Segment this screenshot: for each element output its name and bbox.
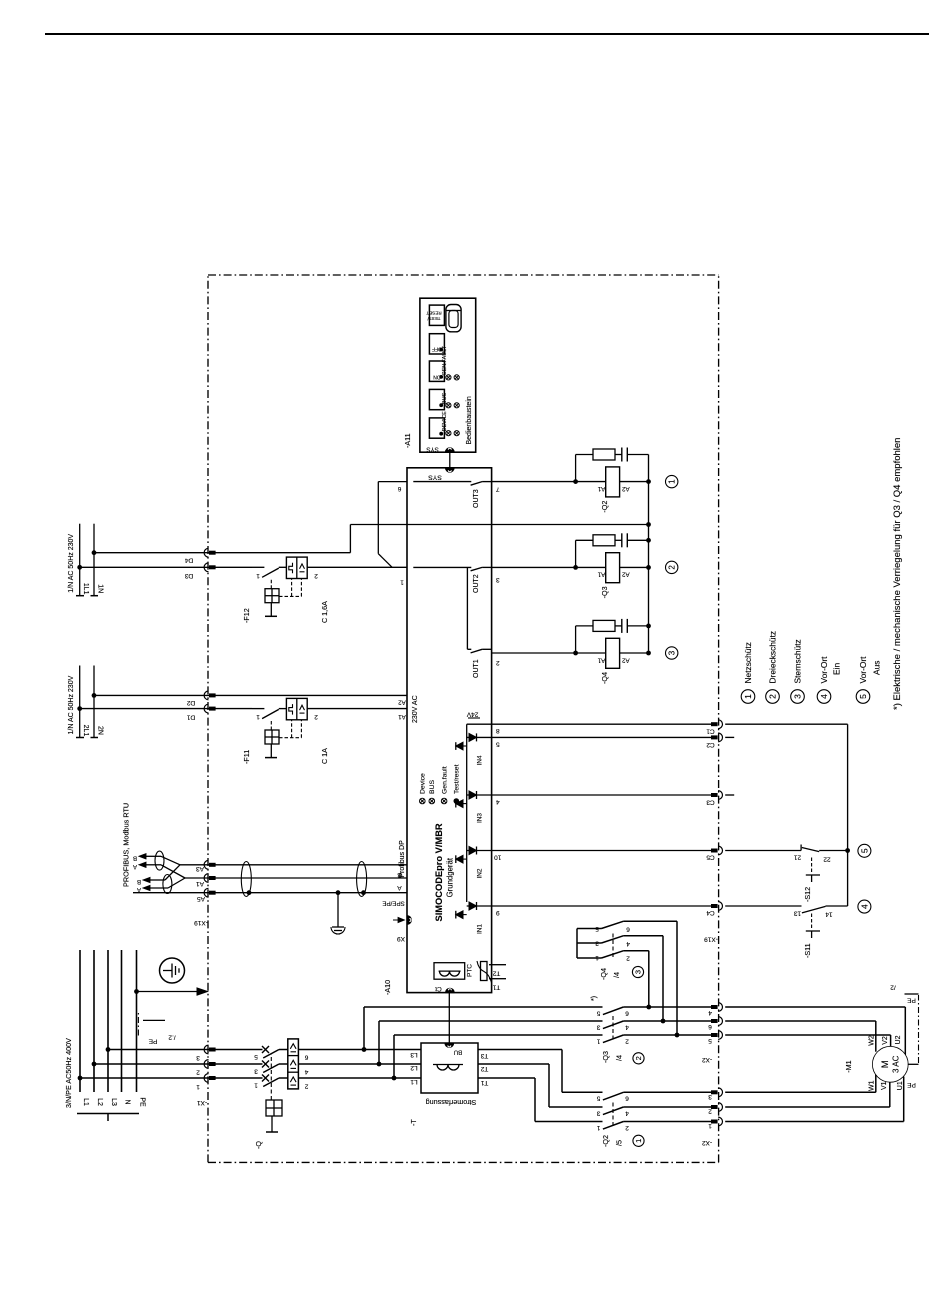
svg-text:1: 1 [254, 1082, 258, 1089]
svg-text:3: 3 [196, 1054, 200, 1061]
svg-text:T3: T3 [480, 1052, 488, 1059]
svg-text:C 1A: C 1A [320, 748, 329, 764]
svg-text:-S11: -S11 [803, 943, 812, 958]
svg-text:A1: A1 [398, 713, 406, 720]
svg-text:4: 4 [708, 1009, 712, 1016]
svg-text:T2: T2 [492, 970, 500, 977]
svg-text:21: 21 [794, 854, 802, 861]
svg-text:-T: -T [409, 1119, 418, 1126]
svg-text:W1: W1 [869, 1080, 876, 1091]
svg-text:1: 1 [708, 1122, 712, 1129]
svg-text:2: 2 [634, 1056, 643, 1060]
svg-text:-F11: -F11 [242, 750, 251, 764]
svg-text:D2: D2 [186, 699, 195, 706]
svg-text:X9: X9 [397, 935, 405, 942]
svg-text:L2: L2 [410, 1064, 418, 1071]
svg-text:OUT3: OUT3 [473, 489, 480, 508]
svg-text:Gen.fault: Gen.fault [441, 766, 448, 794]
svg-text:4: 4 [625, 1109, 629, 1116]
svg-text:Ct: Ct [435, 985, 442, 992]
svg-text:-A10: -A10 [383, 980, 392, 995]
svg-text:/4: /4 [615, 1055, 624, 1061]
svg-text:3: 3 [254, 1068, 258, 1075]
svg-text:1: 1 [668, 479, 677, 484]
svg-text:1: 1 [596, 1037, 600, 1044]
svg-text:A: A [137, 886, 141, 892]
svg-text:6: 6 [626, 926, 630, 933]
svg-text:1N: 1N [96, 584, 103, 593]
svg-text:A3: A3 [196, 865, 204, 872]
svg-text:D4: D4 [184, 557, 193, 564]
svg-text:C 1,6A: C 1,6A [320, 601, 329, 623]
svg-text:A1: A1 [597, 485, 605, 492]
svg-text:22: 22 [823, 856, 831, 863]
svg-text:BUS: BUS [442, 393, 448, 404]
svg-text:5: 5 [708, 1037, 712, 1044]
svg-text:4: 4 [496, 798, 500, 805]
svg-text:L1: L1 [82, 1098, 89, 1106]
svg-text:1: 1 [256, 572, 260, 579]
svg-text:2: 2 [668, 565, 677, 570]
svg-text:Test/reset: Test/reset [454, 764, 461, 794]
svg-text:A2: A2 [621, 485, 629, 492]
svg-text:Device: Device [420, 773, 427, 794]
svg-text:C1: C1 [706, 728, 715, 735]
svg-text:2: 2 [496, 659, 500, 666]
svg-text:-X2: -X2 [702, 1056, 713, 1063]
svg-text:A1: A1 [196, 880, 204, 887]
svg-text:1L1: 1L1 [82, 583, 89, 595]
svg-text:GEN.FAULT: GEN.FAULT [442, 345, 448, 375]
svg-text:4: 4 [819, 694, 829, 699]
svg-text:DEVICE: DEVICE [442, 411, 448, 431]
svg-text:Bedienbaustein: Bedienbaustein [466, 396, 473, 444]
svg-text:3: 3 [596, 1109, 600, 1116]
svg-text:L2: L2 [96, 1098, 103, 1106]
svg-text:U2: U2 [895, 1035, 902, 1044]
svg-text:V1: V1 [881, 1081, 888, 1090]
svg-text:A1: A1 [597, 656, 605, 663]
svg-text:M: M [880, 1060, 891, 1068]
svg-text:6: 6 [625, 1009, 629, 1016]
svg-text:1: 1 [196, 1083, 200, 1090]
svg-text:5: 5 [254, 1053, 258, 1060]
svg-text:6: 6 [397, 485, 401, 492]
svg-text:3: 3 [793, 694, 803, 699]
svg-text:PTC: PTC [467, 964, 474, 977]
svg-text:2L1: 2L1 [82, 725, 89, 737]
svg-text:C3: C3 [706, 799, 715, 806]
svg-text:-S12: -S12 [803, 887, 812, 902]
svg-text:1: 1 [595, 954, 599, 961]
svg-text:4: 4 [859, 904, 869, 909]
svg-text:W2: W2 [869, 1035, 876, 1046]
svg-text:A2: A2 [398, 698, 406, 705]
svg-text:RESET: RESET [426, 311, 442, 316]
svg-text:1/N AC 50Hz 230V: 1/N AC 50Hz 230V [68, 534, 75, 593]
svg-text:-X19: -X19 [194, 919, 208, 926]
svg-text:Vor-Ort: Vor-Ort [819, 656, 829, 684]
svg-text:A5: A5 [197, 895, 205, 902]
svg-text:BUS: BUS [429, 780, 436, 794]
svg-text:PROFIBUS, Modbus RTU: PROFIBUS, Modbus RTU [122, 803, 131, 887]
svg-text:U1: U1 [897, 1081, 904, 1090]
svg-text:*) Elektrische / mechanische V: *) Elektrische / mechanische Verriegelun… [892, 438, 903, 710]
svg-text:3: 3 [634, 970, 643, 974]
svg-text:4: 4 [626, 940, 630, 947]
svg-text:C2: C2 [706, 741, 715, 748]
svg-text:5: 5 [596, 1095, 600, 1102]
svg-text:*): *) [591, 996, 598, 1001]
svg-text:Aus: Aus [872, 661, 882, 675]
svg-text:-A11: -A11 [403, 433, 412, 448]
svg-text:6: 6 [625, 1095, 629, 1102]
svg-text:L3: L3 [110, 1098, 117, 1106]
svg-text:-Q2: -Q2 [600, 501, 609, 513]
svg-text:230V AC: 230V AC [412, 695, 419, 723]
svg-text:7: 7 [496, 486, 500, 493]
svg-text:C5: C5 [706, 854, 715, 861]
svg-text:-X2: -X2 [702, 1139, 713, 1146]
svg-text:A: A [133, 863, 137, 869]
svg-text:-Q4: -Q4 [599, 968, 608, 980]
svg-text:5: 5 [595, 925, 599, 932]
svg-text:2: 2 [196, 1069, 200, 1076]
svg-text:-Q2: -Q2 [601, 1135, 610, 1147]
svg-text:5: 5 [858, 694, 868, 699]
svg-text:D3: D3 [184, 572, 193, 579]
svg-text:1: 1 [743, 694, 753, 699]
svg-text:-Q3: -Q3 [600, 586, 609, 598]
svg-text:5: 5 [596, 1009, 600, 1016]
svg-text:2: 2 [625, 1037, 629, 1044]
svg-text:1/N AC 50Hz 230V: 1/N AC 50Hz 230V [68, 675, 75, 734]
svg-text:Ein: Ein [832, 663, 842, 675]
svg-text:3: 3 [595, 940, 599, 947]
svg-text:2: 2 [314, 713, 318, 720]
svg-text:-Q3: -Q3 [601, 1051, 610, 1063]
svg-text:3: 3 [708, 1093, 712, 1100]
svg-text:2: 2 [304, 1082, 308, 1089]
svg-text:B: B [397, 871, 401, 878]
svg-text:2: 2 [708, 1108, 712, 1115]
svg-text:14: 14 [825, 910, 833, 917]
svg-text:9: 9 [496, 909, 500, 916]
svg-text:Sternschütz: Sternschütz [793, 639, 803, 683]
svg-text:T1: T1 [480, 1079, 488, 1086]
svg-text:SYS: SYS [426, 446, 438, 453]
svg-text:24V: 24V [466, 711, 478, 718]
svg-text:/4: /4 [612, 972, 621, 978]
svg-text:Vor-Ort: Vor-Ort [858, 656, 868, 684]
svg-text:1: 1 [400, 578, 404, 585]
svg-text:IN2: IN2 [477, 868, 484, 878]
svg-text:A: A [397, 884, 402, 891]
svg-text:T1: T1 [492, 984, 500, 991]
svg-text:ON: ON [433, 374, 441, 380]
svg-text:A2: A2 [621, 656, 629, 663]
svg-text:8: 8 [496, 727, 500, 734]
svg-text:OFF: OFF [432, 346, 442, 352]
svg-text:SYS: SYS [428, 474, 442, 481]
svg-text:/2: /2 [890, 984, 896, 991]
svg-text:N: N [124, 1099, 131, 1104]
svg-text:/.2: /.2 [168, 1034, 176, 1041]
svg-text:PE: PE [148, 1038, 157, 1045]
svg-text:2: 2 [625, 1124, 629, 1131]
svg-text:3: 3 [496, 576, 500, 583]
svg-text:A2: A2 [621, 571, 629, 578]
svg-text:BU: BU [454, 1049, 462, 1055]
svg-text:Grundgerät: Grundgerät [446, 857, 455, 897]
svg-text:SPE/PE: SPE/PE [382, 900, 404, 907]
svg-text:IN4: IN4 [477, 755, 484, 765]
svg-text:IN3: IN3 [477, 813, 484, 823]
svg-text:3: 3 [596, 1023, 600, 1030]
svg-text:-Q: -Q [254, 1141, 263, 1149]
svg-text:IN1: IN1 [477, 924, 484, 934]
svg-text:1: 1 [256, 713, 260, 720]
svg-text:1: 1 [596, 1124, 600, 1131]
svg-text:4: 4 [304, 1068, 308, 1075]
svg-text:TEST/: TEST/ [427, 316, 441, 321]
svg-text:D1: D1 [186, 713, 195, 720]
svg-text:L1: L1 [410, 1078, 418, 1085]
svg-text:T2: T2 [480, 1065, 488, 1072]
svg-text:PE: PE [139, 1097, 146, 1107]
svg-text:10: 10 [494, 854, 502, 861]
svg-text:OUT1: OUT1 [473, 659, 480, 678]
svg-text:2N: 2N [96, 726, 103, 735]
svg-text:Netzschütz: Netzschütz [743, 642, 753, 683]
svg-text:L3: L3 [410, 1051, 418, 1058]
svg-text:V2: V2 [882, 1036, 889, 1045]
svg-text:5: 5 [496, 740, 500, 747]
svg-text:PE: PE [907, 997, 916, 1004]
svg-text:5: 5 [859, 848, 869, 853]
svg-text:Stromerfassung: Stromerfassung [426, 1098, 477, 1107]
svg-text:B: B [137, 878, 141, 884]
svg-text:/5: /5 [615, 1140, 624, 1146]
svg-text:3: 3 [668, 650, 677, 655]
svg-text:-X1: -X1 [197, 1099, 208, 1106]
svg-text:1: 1 [634, 1139, 643, 1143]
svg-text:SIMOCODEpro V/MBR: SIMOCODEpro V/MBR [434, 823, 444, 921]
svg-text:3/N/PE AC50Hz 400V: 3/N/PE AC50Hz 400V [64, 1038, 73, 1108]
svg-text:PE: PE [907, 1081, 916, 1088]
svg-text:-Q4: -Q4 [600, 672, 609, 684]
svg-text:-X19: -X19 [704, 936, 718, 943]
svg-text:-M1: -M1 [844, 1060, 853, 1072]
svg-text:2: 2 [626, 954, 630, 961]
svg-text:2: 2 [768, 694, 778, 699]
svg-text:A1: A1 [597, 571, 605, 578]
svg-text:Dreieckschütz: Dreieckschütz [768, 631, 778, 684]
svg-text:-F12: -F12 [242, 608, 251, 623]
svg-text:3 AC: 3 AC [892, 1055, 901, 1073]
svg-text:OUT2: OUT2 [473, 574, 480, 593]
svg-text:13: 13 [794, 910, 802, 917]
svg-text:6: 6 [708, 1023, 712, 1030]
svg-text:6: 6 [304, 1054, 308, 1061]
svg-text:B: B [133, 854, 137, 860]
svg-text:C4: C4 [706, 909, 715, 916]
svg-text:2: 2 [314, 572, 318, 579]
svg-text:4: 4 [625, 1023, 629, 1030]
